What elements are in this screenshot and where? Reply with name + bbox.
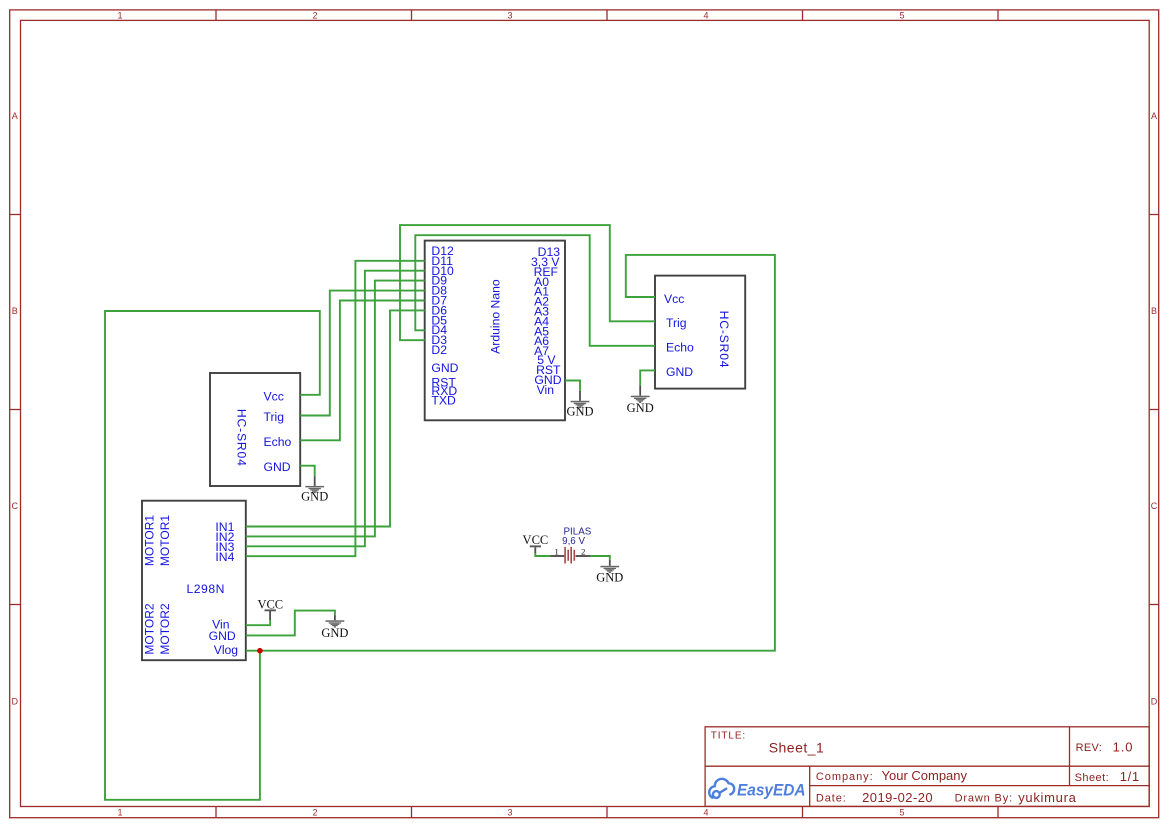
wire D7 to Echo of U2 [300,301,425,441]
battery BT1 PILAS pin 1 [550,555,564,557]
wire U4 Vlog to U3 Vcc (right tall run) [246,255,775,651]
svg-text:L298N: L298N [186,582,224,596]
svg-text:D: D [12,697,19,707]
wire U4 GND to ground [246,611,335,636]
battery BT1 pin 2 [576,555,590,557]
ground symbol at U4 GND [321,615,348,640]
svg-text:Vlog: Vlog [214,643,238,657]
svg-text:3: 3 [507,11,512,21]
VCC power symbol at U4 Vin [257,597,283,620]
border ruler ticks right [1149,215,1159,605]
svg-text:Sheet:: Sheet: [1075,772,1110,784]
svg-text:MOTOR2: MOTOR2 [142,603,156,654]
svg-text:Arduino Nano: Arduino Nano [489,279,503,354]
U1 left pin labels D12-TXD [431,244,458,408]
svg-text:GND: GND [264,460,291,474]
svg-text:MOTOR1: MOTOR1 [142,515,156,566]
wire U1 GND pin to ground [565,381,580,391]
svg-text:A: A [12,111,18,121]
border ruler ticks top [216,10,998,21]
svg-text:4: 4 [703,11,708,21]
junction dot on Vlog wire [257,648,263,654]
svg-text:GND: GND [627,401,654,415]
svg-text:1.0: 1.0 [1113,740,1134,755]
svg-text:3: 3 [507,808,512,818]
svg-text:IN4: IN4 [215,550,234,564]
svg-text:2: 2 [312,11,317,21]
svg-text:Company:: Company: [816,771,874,783]
border column numbers bottom [117,808,904,818]
svg-text:2: 2 [312,808,317,818]
wire D11 to IN4 [246,261,425,556]
svg-text:TXD: TXD [431,394,456,408]
ground symbol at U3 GND [627,386,654,415]
EasyEDA logo cloud icon [709,779,734,798]
svg-text:Echo: Echo [264,435,292,449]
svg-text:REV:: REV: [1076,742,1102,754]
ground symbol at U2 GND [301,476,328,504]
svg-text:yukimura: yukimura [1018,790,1076,805]
U2 pin labels Vcc Trig Echo GND [264,389,292,474]
svg-text:Drawn By:: Drawn By: [955,792,1013,804]
svg-text:Trig: Trig [264,410,285,424]
svg-text:5: 5 [899,11,904,21]
border ruler ticks left [10,215,21,605]
title block outline [705,727,1149,807]
svg-text:2: 2 [581,546,585,556]
svg-text:MOTOR1: MOTOR1 [158,515,172,566]
wire D6 to IN1 [246,310,425,526]
border row letters right [1151,111,1158,707]
svg-text:Vin: Vin [537,383,554,397]
U4 MOTOR1 pin labels [142,515,172,566]
svg-text:D2: D2 [431,343,447,357]
svg-text:1: 1 [554,546,558,556]
wire D9 to IN2 [246,281,425,537]
svg-text:Vcc: Vcc [264,389,284,403]
svg-text:HC-SR04: HC-SR04 [717,311,731,369]
wire D10 to IN3 [246,271,425,547]
svg-text:MOTOR2: MOTOR2 [158,603,172,654]
svg-text:1/1: 1/1 [1120,769,1140,784]
svg-text:B: B [12,306,18,316]
svg-text:GND: GND [431,361,458,375]
svg-text:TITLE:: TITLE: [711,731,746,742]
svg-text:GND: GND [301,490,328,504]
U4 MOTOR2 pin labels [142,603,172,654]
wire U4 Vin to VCC symbol [246,620,270,625]
svg-text:Echo: Echo [666,341,694,355]
wire VCC to battery pin 1 [535,553,550,556]
svg-text:4: 4 [703,808,708,818]
svg-text:C: C [12,501,19,511]
svg-text:HC-SR04: HC-SR04 [235,409,249,467]
wire D8 to Trig of U2 [300,291,425,416]
svg-text:EasyEDA: EasyEDA [737,781,806,799]
svg-text:5: 5 [899,808,904,818]
module U1 Arduino Nano body [425,241,565,421]
module U4 L298N body [142,501,246,661]
svg-text:C: C [1151,501,1158,511]
ground symbol at battery - [596,560,623,585]
svg-text:2019-02-20: 2019-02-20 [862,790,933,805]
wire D3 to Trig of U3 [400,225,655,340]
U4 right pin labels IN1-IN4 Vin GND Vlog [209,520,238,657]
svg-text:GND: GND [566,405,593,419]
svg-text:D: D [1151,697,1158,707]
svg-text:VCC: VCC [257,597,283,611]
svg-text:GND: GND [666,365,693,379]
U3 pin labels Vcc Trig Echo GND [664,292,694,379]
svg-text:GND: GND [596,570,623,584]
svg-text:1: 1 [117,808,122,818]
svg-text:A: A [1151,111,1157,121]
border row letters left [12,111,19,707]
wire U3 GND pin to ground [640,370,655,385]
wire battery pin 2 to ground [590,556,610,560]
svg-text:GND: GND [209,629,236,643]
wire U2 GND pin to ground [300,466,315,477]
svg-text:GND: GND [321,626,348,640]
svg-text:1: 1 [117,11,122,21]
svg-text:Trig: Trig [666,316,687,330]
wire U2 Vcc to VCC net loop (left tall run) [105,311,320,800]
VCC power symbol at battery + [523,533,549,554]
svg-text:B: B [1151,306,1157,316]
module U3 HC-SR04 right body [655,276,745,389]
svg-text:9,6 V: 9,6 V [562,536,585,547]
wire D4 to Echo of U3 [415,235,655,346]
svg-text:Date:: Date: [816,792,847,804]
battery BT1 cell plates [565,547,574,564]
svg-text:Vcc: Vcc [664,292,684,306]
border column numbers top [117,11,904,21]
module U2 HC-SR04 left body [210,373,300,486]
ground symbol at U1 GND [566,391,593,419]
border ruler ticks bottom [216,807,998,818]
svg-text:VCC: VCC [523,533,549,547]
svg-text:Your Company: Your Company [882,768,968,783]
U1 right pin labels D13-Vin [531,245,562,397]
svg-text:Sheet_1: Sheet_1 [769,739,825,755]
